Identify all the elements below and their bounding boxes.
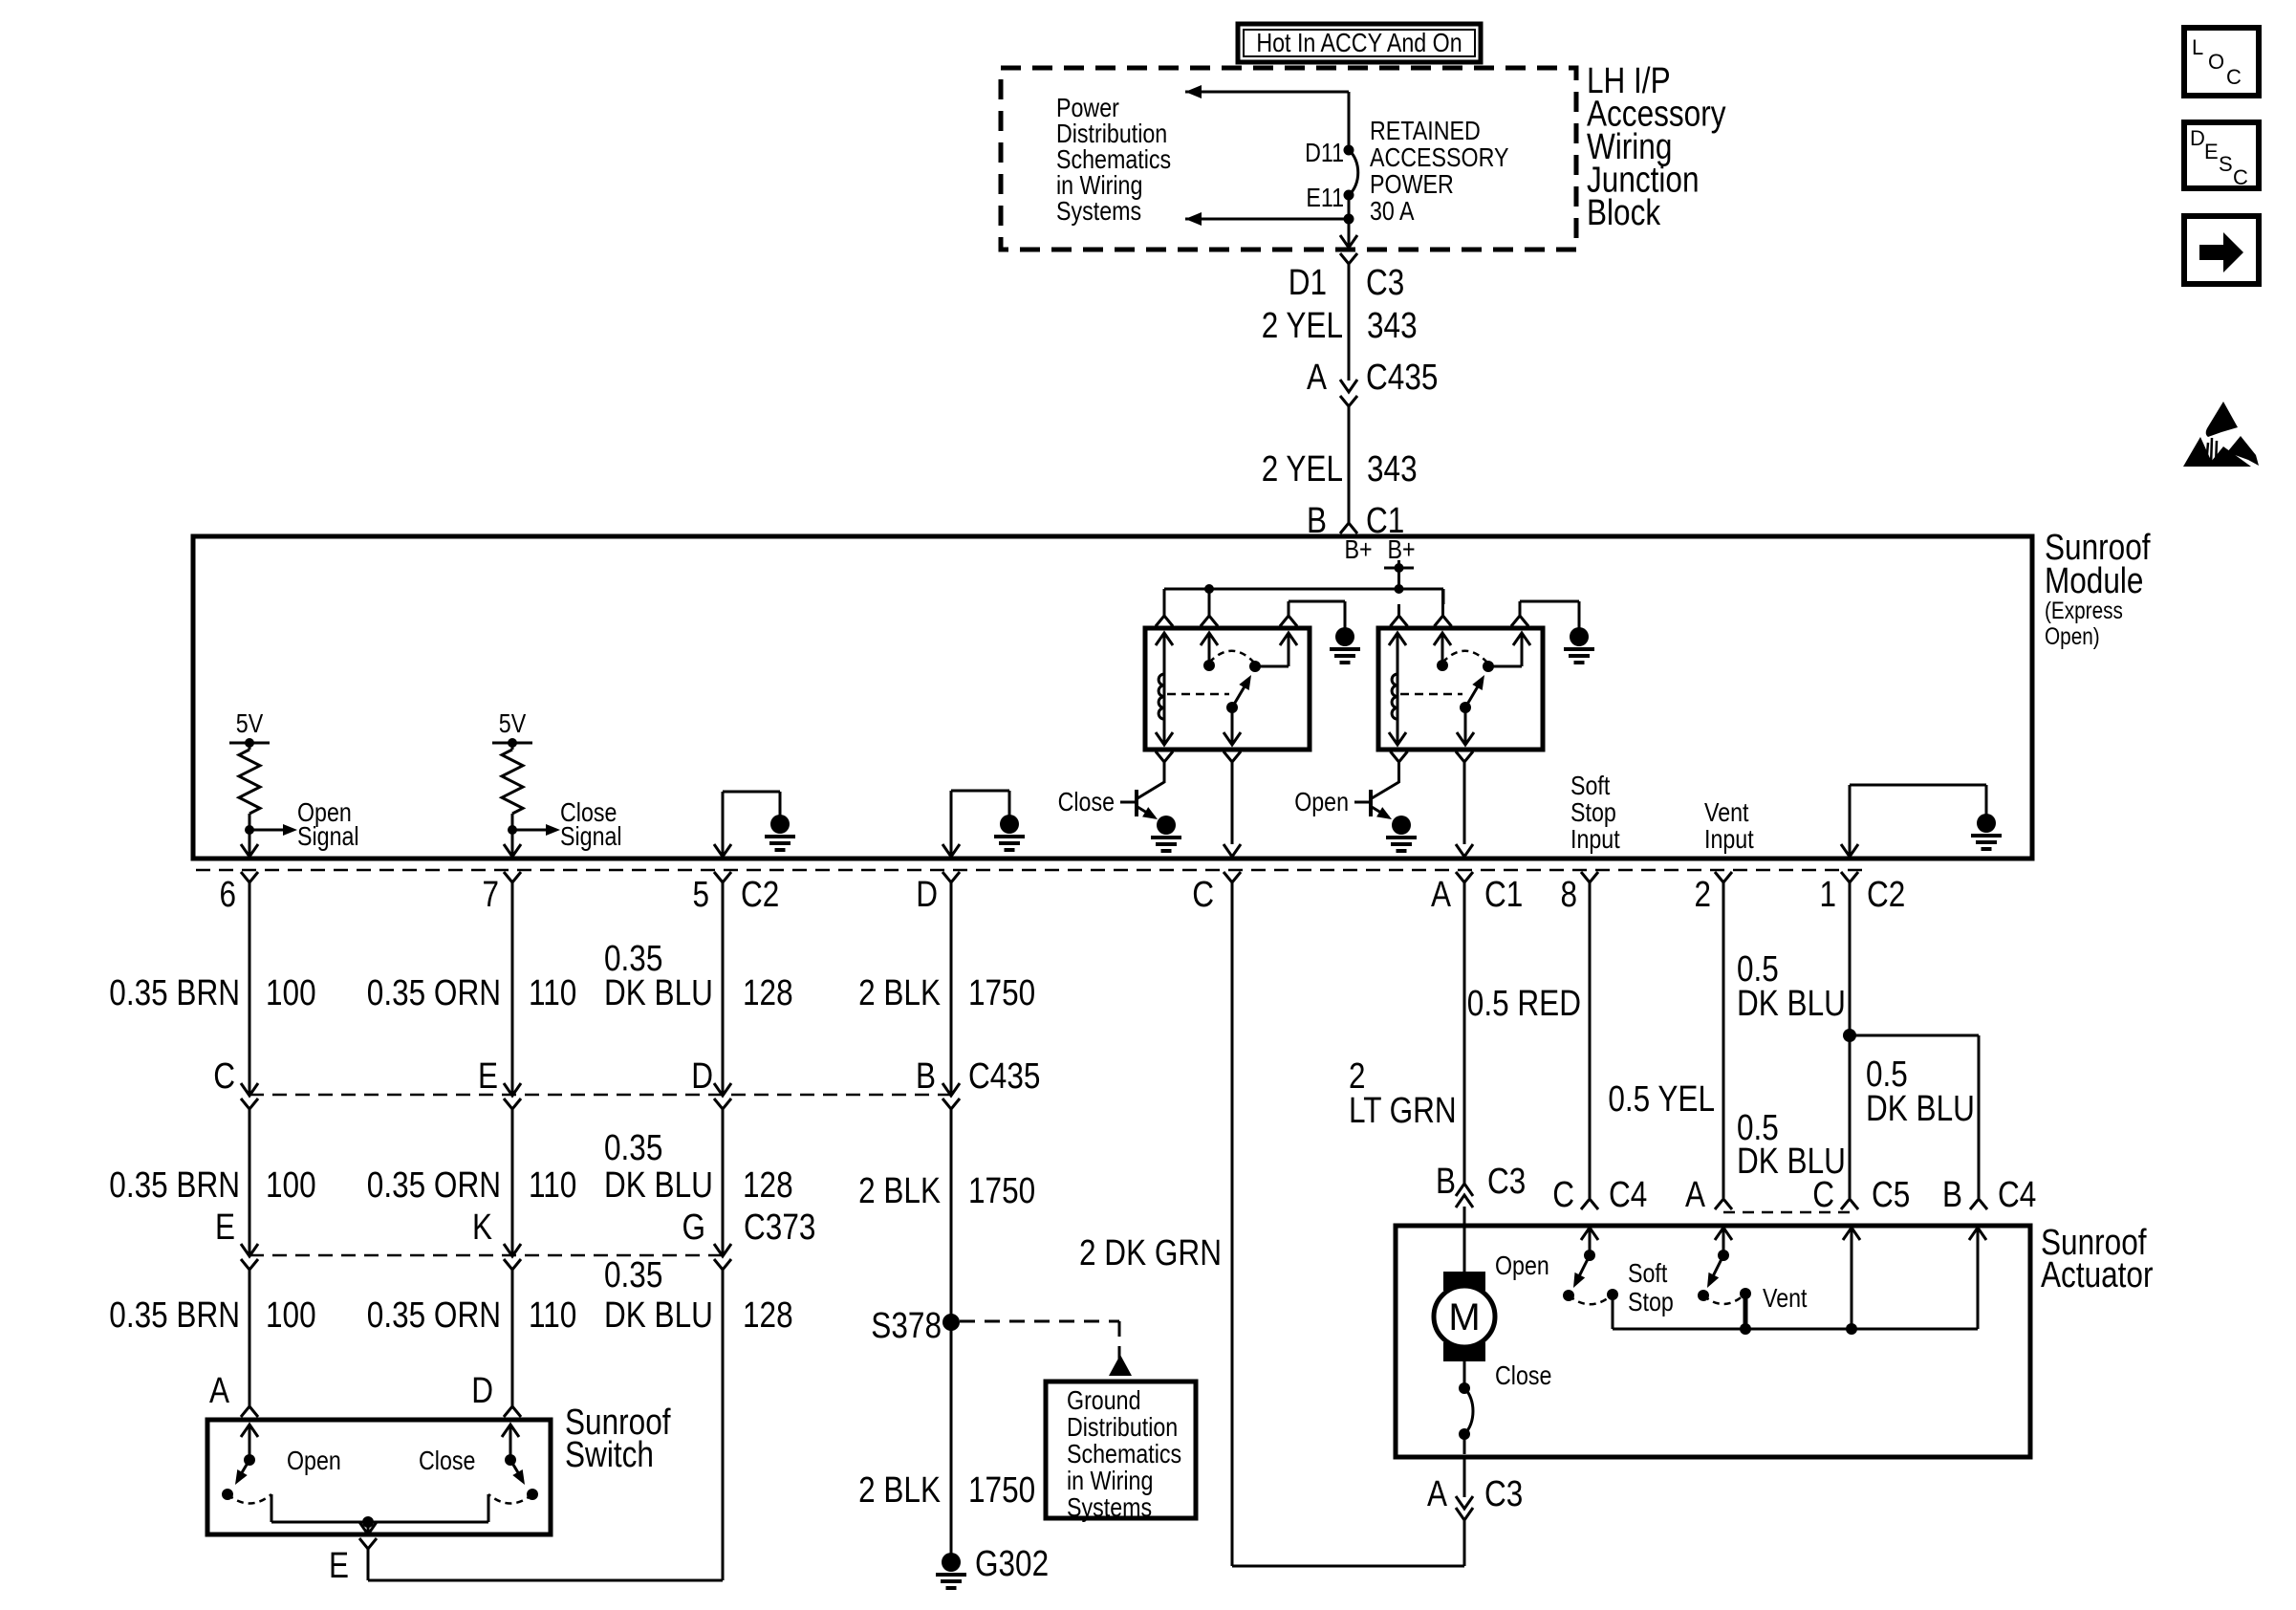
svg-text:2: 2 [1695, 875, 1712, 915]
connector halves below relay K1 [1156, 751, 1241, 762]
relay contacts and armature [1167, 633, 1297, 745]
label: Sunroof Switch [565, 1403, 671, 1475]
svg-text:2 BLK: 2 BLK [858, 973, 941, 1013]
wire: feed to Power Distribution (top arrow) [1185, 85, 1349, 98]
svg-text:C373: C373 [744, 1207, 815, 1248]
relay K2 (open) [1378, 628, 1543, 750]
label 2 YEL 343 [1262, 449, 1418, 490]
soft stop switch arrows into actuator [1581, 1228, 1598, 1255]
svg-text:C3: C3 [1487, 1162, 1526, 1202]
wire: actuator to connector C3 pin A [1463, 1457, 1466, 1497]
resistor R1 (open signal pullup) [239, 743, 260, 857]
C373 pin G [682, 1207, 816, 1270]
vent switch [1698, 1250, 1751, 1329]
label 0.5 DK BLU (branch) [1866, 1055, 1975, 1129]
5V supply 2 [492, 708, 532, 748]
connector half above module [1340, 523, 1357, 533]
wire: bus drop to relay1 NC [1208, 589, 1211, 604]
switch pin D [471, 1371, 521, 1417]
soft stop switch [1563, 1250, 1618, 1329]
wire: 0.35 BRN 100 (C435 to C373) [249, 1107, 251, 1254]
ground (Q2 emitter) [1392, 816, 1411, 835]
C435 pin D [691, 1056, 731, 1109]
wire: 0.35 ORN 110 (module pin 7 to C435 E) [511, 882, 514, 1094]
wire: relay K1 common to pin C [1224, 762, 1241, 857]
label: Open Signal [297, 797, 359, 851]
svg-text:Module: Module [2045, 561, 2143, 601]
svg-text:in Wiring: in Wiring [1067, 1466, 1153, 1495]
svg-text:Systems: Systems [1056, 196, 1141, 226]
wire: 2 DK GRN (module pin C to actuator A C3) [1232, 882, 1464, 1566]
node: bus to relay 1 contact [1204, 584, 1214, 594]
ground G302 [936, 1544, 1049, 1588]
connector dashed segment A-C [1723, 1211, 1850, 1214]
svg-text:C: C [2233, 165, 2248, 189]
module pin 8 [1561, 872, 1599, 915]
svg-text:C435: C435 [1366, 358, 1438, 398]
svg-text:DK BLU: DK BLU [1737, 984, 1846, 1024]
icon: DESC box [2184, 122, 2259, 189]
icon: LOC box [2184, 28, 2259, 96]
ground (Q1 emitter) [1157, 816, 1176, 835]
label: Soft Stop Input [1570, 771, 1620, 854]
ground (module internal, pin D) [1000, 815, 1019, 834]
wire: relay K2 common to pin A [1456, 762, 1473, 857]
svg-text:5V: 5V [499, 708, 527, 738]
svg-text:Hot In ACCY And On: Hot In ACCY And On [1256, 28, 1462, 57]
wire: vertical from arrow to fuse [1348, 92, 1351, 150]
svg-text:Soft: Soft [1628, 1258, 1667, 1288]
wire: E11 down to junction [1348, 195, 1351, 248]
svg-text:A: A [1431, 875, 1452, 915]
svg-text:E: E [478, 1056, 498, 1097]
arrow to pin 6 [241, 844, 258, 857]
label 0.35 DK BLU 128 [604, 1255, 793, 1336]
note box: Ground Distribution Schematics in Wiring Systems [1046, 1382, 1196, 1522]
svg-text:Input: Input [1570, 824, 1620, 854]
svg-text:C2: C2 [1867, 875, 1905, 915]
label B / C1 [1307, 501, 1404, 541]
wire: 2 YEL 343 (lower) [1348, 406, 1351, 524]
wire: 0.35 ORN 110 (C435 to C373) [511, 1107, 514, 1254]
svg-text:Stop: Stop [1570, 797, 1616, 827]
label 0.35 ORN 110 [367, 973, 577, 1013]
svg-text:0.35: 0.35 [604, 1128, 662, 1168]
svg-text:0.35 ORN: 0.35 ORN [367, 1165, 501, 1206]
label box: Hot In ACCY And On [1238, 24, 1481, 62]
svg-text:E: E [329, 1546, 349, 1586]
C373 pin K [472, 1207, 521, 1270]
ground (module internal, pin 1) [1977, 814, 1996, 833]
svg-text:C1: C1 [1484, 875, 1523, 915]
switch pin A [209, 1371, 258, 1417]
label: LH I/P Accessory Wiring Junction Block [1587, 61, 1726, 233]
svg-text:C: C [2226, 65, 2242, 89]
resistor R2 (close signal pullup) [502, 743, 523, 857]
relay contacts and armature [1400, 633, 1530, 745]
wire: C5 C into actuator [1843, 1228, 1860, 1329]
svg-text:C2: C2 [741, 875, 779, 915]
svg-text:2 BLK: 2 BLK [858, 1171, 941, 1211]
connector C3 pin A [1427, 1474, 1523, 1520]
wire: 2 BLK 1750 (module pin D to C435 B) [950, 882, 953, 1094]
svg-text:O: O [2208, 50, 2224, 74]
svg-text:2 YEL: 2 YEL [1262, 449, 1343, 490]
svg-text:G: G [682, 1207, 706, 1248]
relay coil [1156, 633, 1173, 745]
switch common bus [271, 1516, 488, 1534]
svg-text:Block: Block [1587, 193, 1661, 233]
label 2 LT GRN [1349, 1056, 1457, 1131]
actuator internal bus [1613, 1323, 1978, 1335]
Sunroof Module box [193, 536, 2032, 859]
svg-text:L: L [2192, 35, 2203, 59]
svg-text:DK BLU: DK BLU [604, 1165, 713, 1206]
label: Sunroof Actuator [2041, 1223, 2154, 1295]
svg-text:C4: C4 [1609, 1175, 1647, 1215]
close signal tap arrow [512, 824, 560, 836]
svg-text:D1: D1 [1289, 263, 1327, 303]
switch open contact [222, 1425, 271, 1522]
arrow out of junction block [1340, 235, 1357, 248]
label: Soft Stop [1628, 1258, 1674, 1316]
node: bus to relay 2 coil [1395, 584, 1404, 594]
ground (relay K1 output) [1335, 627, 1354, 646]
svg-text:Systems: Systems [1067, 1492, 1152, 1522]
connector C4 pin B [1942, 1175, 2036, 1215]
relay coil [1389, 633, 1406, 745]
svg-text:DK BLU: DK BLU [1866, 1089, 1975, 1129]
svg-text:A: A [1685, 1175, 1706, 1215]
svg-text:Close: Close [1495, 1360, 1551, 1390]
connector C5 pin C [1812, 1175, 1910, 1215]
wire: 0.5 DK BLU branch to C4 B [1850, 1035, 1979, 1198]
note text: Power Distribution Schematics in Wiring Systems [1056, 93, 1171, 226]
svg-text:A: A [209, 1371, 230, 1411]
svg-text:Open): Open) [2045, 623, 2100, 650]
svg-text:1750: 1750 [968, 1470, 1035, 1511]
svg-text:110: 110 [529, 1165, 576, 1206]
wire: 2 YEL 343 (upper) [1348, 264, 1351, 381]
svg-text:100: 100 [266, 1165, 316, 1206]
svg-text:C435: C435 [968, 1056, 1040, 1097]
motor M [1434, 1272, 1495, 1361]
svg-text:1750: 1750 [968, 1171, 1035, 1211]
svg-text:B: B [1436, 1162, 1456, 1202]
module pin 1 / C2 [1820, 872, 1906, 915]
label 2 YEL 343 [1262, 306, 1418, 346]
label: RETAINED ACCESSORY POWER 30 A [1370, 116, 1509, 226]
svg-text:128: 128 [743, 1165, 793, 1206]
wire: 0.5 DK BLU (module pin 1 down) [1849, 882, 1852, 1198]
svg-text:0.35 BRN: 0.35 BRN [109, 1295, 240, 1336]
wire: 0.35 DK BLU 128 (C373 down and left to switch E) [368, 1268, 723, 1580]
C435 pin E [478, 1056, 521, 1109]
connector halves above relay K2 [1391, 589, 1529, 626]
wire: feed to Power Distribution (bottom arrow) [1185, 212, 1354, 226]
svg-text:Stop: Stop [1628, 1287, 1674, 1316]
wire: B+ bus [1164, 589, 1443, 604]
svg-text:B: B [1942, 1175, 1962, 1215]
fuse: RETAINED ACCESSORY POWER 30 A (D11-E11) [1344, 145, 1358, 201]
svg-text:S: S [2219, 152, 2233, 176]
connector C4 pin C [1552, 1175, 1647, 1215]
svg-text:C4: C4 [1998, 1175, 2036, 1215]
svg-text:C3: C3 [1366, 263, 1404, 303]
svg-text:S378: S378 [871, 1306, 942, 1346]
wire: 0.35 BRN 100 (C373 to switch A) [249, 1268, 251, 1408]
svg-text:B+: B+ [1344, 534, 1372, 564]
wire: 0.35 DK BLU 128 (C435 to C373) [722, 1107, 725, 1254]
label 2 BLK 1750 [858, 973, 1035, 1013]
module pin A / C1 [1431, 872, 1523, 915]
svg-text:M: M [1448, 1296, 1480, 1338]
wire: pin 1 to internal ground [1841, 785, 1986, 857]
svg-text:Close: Close [419, 1446, 475, 1475]
open signal tap arrow [249, 824, 297, 836]
svg-text:1: 1 [1820, 875, 1837, 915]
module pin 7 [483, 872, 522, 915]
svg-text:Input: Input [1704, 824, 1754, 854]
wire: relay K1 output to ground [1289, 601, 1345, 628]
svg-text:C: C [1552, 1175, 1574, 1215]
svg-text:8: 8 [1561, 875, 1578, 915]
svg-text:C: C [213, 1056, 235, 1097]
svg-text:Signal: Signal [560, 821, 622, 851]
svg-text:0.35 BRN: 0.35 BRN [109, 1165, 240, 1206]
svg-text:110: 110 [529, 1295, 576, 1336]
svg-text:A: A [1427, 1474, 1448, 1514]
dashed reference to ground distribution [960, 1321, 1132, 1376]
switch pin E [329, 1538, 377, 1586]
svg-text:100: 100 [266, 973, 316, 1013]
svg-text:5: 5 [693, 875, 710, 915]
label 2 BLK 1750 [858, 1470, 1035, 1511]
module pin 5 / C2 [693, 872, 780, 915]
wire: 0.35 DK BLU 128 (module pin 5 to C435 D) [722, 882, 725, 1094]
wire: 0.5 RED (module pin 8 to actuator C C4) [1589, 882, 1592, 1198]
svg-text:E: E [2204, 140, 2219, 163]
svg-text:1750: 1750 [968, 973, 1035, 1013]
wire: 2 BLK 1750 (S378 to G302) [950, 1322, 953, 1554]
label 0.35 ORN 110 [367, 1295, 577, 1336]
svg-text:POWER: POWER [1370, 169, 1454, 199]
C373 pin E [215, 1207, 258, 1270]
Sunroof Switch box [207, 1420, 551, 1534]
svg-text:ACCESSORY: ACCESSORY [1370, 142, 1509, 172]
svg-text:(Express: (Express [2045, 598, 2123, 624]
svg-text:Signal: Signal [297, 821, 359, 851]
svg-text:Open: Open [1495, 1251, 1549, 1280]
wire: 2 BLK 1750 (C435 to S378) [950, 1107, 953, 1322]
svg-text:2 DK GRN: 2 DK GRN [1079, 1233, 1222, 1273]
svg-text:K: K [472, 1207, 492, 1248]
svg-text:0.35 BRN: 0.35 BRN [109, 973, 240, 1013]
label 0.35 BRN 100 [109, 973, 315, 1013]
label: Vent Input [1704, 797, 1754, 854]
relay K1 (close) [1145, 628, 1310, 750]
wire: pin 5 to internal ground [714, 792, 780, 857]
svg-text:Open: Open [1294, 787, 1349, 816]
ground (module internal, pin 5) [770, 815, 790, 834]
svg-text:Vent: Vent [1763, 1283, 1808, 1313]
label: Close Signal [560, 797, 622, 851]
svg-text:G302: G302 [975, 1544, 1049, 1584]
svg-text:Open: Open [287, 1446, 341, 1475]
splice S378 [871, 1306, 960, 1346]
wire: C4 B into actuator [1969, 1228, 1986, 1329]
wire: relay K2 output to ground [1520, 601, 1579, 628]
connector half below junction block [1340, 253, 1357, 264]
arrow to pin 7 [504, 844, 521, 857]
svg-text:Actuator: Actuator [2041, 1255, 2154, 1295]
svg-text:D: D [691, 1056, 713, 1097]
module connector dashed line [196, 869, 1864, 872]
label 0.5 DK BLU [1737, 949, 1846, 1024]
connector halves above relay K1 [1156, 604, 1297, 626]
label 0.5 DK BLU (lower) [1737, 1108, 1846, 1182]
svg-text:Switch: Switch [565, 1435, 654, 1475]
module pin D [916, 872, 960, 915]
svg-text:Soft: Soft [1570, 771, 1610, 800]
svg-text:A: A [1307, 358, 1328, 398]
svg-text:5V: 5V [236, 708, 264, 738]
Sunroof Actuator box [1396, 1226, 2030, 1457]
wire: 0.35 ORN 110 (C373 to switch D) [511, 1268, 514, 1408]
svg-text:110: 110 [529, 973, 576, 1013]
svg-text:0.35 ORN: 0.35 ORN [367, 1295, 501, 1336]
B+ terminal [1384, 560, 1414, 589]
transistor Q2 (open driver) [1354, 762, 1399, 819]
svg-text:E: E [215, 1207, 235, 1248]
svg-text:E11: E11 [1306, 183, 1344, 212]
svg-text:343: 343 [1367, 449, 1418, 490]
transistor Q1 (close driver) [1120, 762, 1164, 819]
label: Sunroof Module (Express Open) [2045, 528, 2151, 650]
svg-text:Vent: Vent [1704, 797, 1749, 827]
module pin C [1192, 872, 1241, 915]
svg-text:D: D [471, 1371, 493, 1411]
svg-text:6: 6 [220, 875, 237, 915]
wire: 2 LT GRN (module pin A to actuator B C3) [1463, 882, 1466, 1184]
svg-text:Ground: Ground [1067, 1385, 1141, 1415]
wire: 0.35 BRN 100 (module pin 6 to C435 C) [249, 882, 251, 1094]
vent switch arrow into actuator [1715, 1228, 1732, 1255]
icon: arrow box [2184, 216, 2259, 284]
module pin 6 [220, 872, 259, 915]
label 0.35 DK BLU 128 [604, 939, 793, 1013]
wire: C3 A down to DK GRN link [1463, 1520, 1466, 1566]
ground (relay K2 output) [1570, 627, 1589, 646]
svg-text:128: 128 [743, 973, 793, 1013]
svg-text:C: C [1812, 1175, 1834, 1215]
splice node on DK BLU [1843, 1029, 1856, 1042]
in-line connector C435 pin A [1307, 358, 1438, 406]
wire: pin D to internal ground [942, 791, 1009, 857]
label 0.35 BRN 100 [109, 1165, 315, 1206]
5V supply 1 [229, 708, 270, 748]
svg-text:C3: C3 [1484, 1474, 1523, 1514]
svg-text:0.35 ORN: 0.35 ORN [367, 973, 501, 1013]
svg-text:128: 128 [743, 1295, 793, 1336]
label D1 / C3 [1289, 263, 1405, 303]
label 0.35 DK BLU 128 [604, 1128, 793, 1206]
label 0.35 ORN 110 [367, 1165, 577, 1206]
motor breaker arc [1459, 1361, 1473, 1454]
connector halves below relay K2 [1391, 751, 1474, 762]
svg-text:RETAINED: RETAINED [1370, 116, 1481, 145]
svg-text:Distribution: Distribution [1067, 1412, 1178, 1442]
svg-text:2 YEL: 2 YEL [1262, 306, 1343, 346]
svg-text:DK BLU: DK BLU [604, 1295, 713, 1336]
wire: into actuator to motor [1463, 1207, 1466, 1273]
connector C4 pin A [1685, 1175, 1732, 1215]
wire: 0.5 YEL (module pin 2 to actuator A C4) [1722, 882, 1725, 1198]
C435 pin B [916, 1056, 1040, 1109]
label 2 BLK 1750 [858, 1171, 1035, 1211]
svg-text:2 BLK: 2 BLK [858, 1470, 941, 1511]
svg-text:C5: C5 [1872, 1175, 1910, 1215]
svg-text:0.5 YEL: 0.5 YEL [1608, 1079, 1715, 1120]
LH I/P Accessory Wiring Junction Block (dashed box) [1001, 68, 1576, 250]
label B+ B+ [1344, 534, 1415, 564]
connector C435 dashed line [249, 1094, 951, 1097]
svg-text:D: D [2190, 126, 2205, 150]
svg-text:D: D [916, 875, 938, 915]
connector C373 dashed line [249, 1254, 723, 1257]
svg-text:100: 100 [266, 1295, 316, 1336]
svg-text:Close: Close [1058, 787, 1115, 816]
label 0.35 BRN 100 [109, 1295, 315, 1336]
svg-text:C: C [1192, 875, 1214, 915]
connector C3 pin B [1436, 1162, 1526, 1207]
svg-text:LT GRN: LT GRN [1349, 1091, 1457, 1131]
svg-text:B: B [916, 1056, 936, 1097]
svg-text:7: 7 [483, 875, 500, 915]
svg-text:DK BLU: DK BLU [604, 973, 713, 1013]
svg-text:30 A: 30 A [1370, 196, 1415, 226]
module pin 2 [1695, 872, 1733, 915]
switch close contact [488, 1425, 538, 1522]
svg-text:D11: D11 [1305, 138, 1344, 167]
svg-text:0.35: 0.35 [604, 1255, 662, 1295]
svg-text:0.5 RED: 0.5 RED [1467, 984, 1581, 1024]
C435 pin C [213, 1056, 258, 1109]
svg-text:Schematics: Schematics [1067, 1439, 1181, 1469]
svg-text:B+: B+ [1387, 534, 1415, 564]
svg-text:343: 343 [1367, 306, 1418, 346]
icon: ESD warning triangle [2183, 402, 2259, 467]
